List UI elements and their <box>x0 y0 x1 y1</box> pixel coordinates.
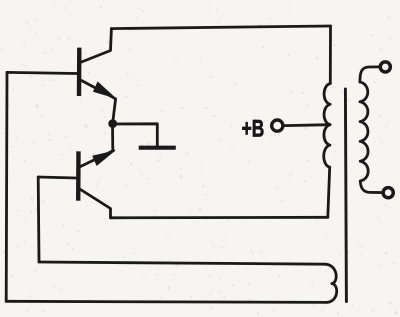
transistor Q2 base lead wire <box>38 177 76 178</box>
terminal +B circle <box>272 120 283 131</box>
wire node to ground <box>113 124 158 147</box>
wire feedback return <box>39 262 325 264</box>
transistor Q1 emitter arrow <box>93 81 117 98</box>
transistor Q2 base bar <box>76 151 81 200</box>
terminal secondary bottom circle <box>383 188 393 198</box>
node A junction dot <box>108 119 117 128</box>
transistor Q2 collector lead <box>81 190 111 218</box>
transistor Q1 base bar <box>77 48 82 96</box>
wire secondary bottom lead <box>360 181 383 193</box>
transistor Q2 emitter arrow <box>92 150 116 166</box>
wire primary top lead <box>329 26 332 84</box>
svg-text:+B: +B <box>242 116 265 142</box>
wire feedback inner vertical <box>37 177 41 262</box>
transistor Q1 emitter lead <box>82 81 116 123</box>
transformer secondary winding L2 <box>360 82 368 181</box>
transformer primary winding L1 <box>324 84 331 168</box>
transistor Q2 emitter lead <box>81 151 114 167</box>
wire +B tap <box>285 123 331 127</box>
wire Q2 collector to transformer primary bottom <box>111 216 328 219</box>
terminal secondary top circle <box>380 62 390 72</box>
wire primary bottom lead <box>328 167 330 217</box>
transformer core <box>345 89 346 302</box>
wire feedback bottom <box>6 301 326 302</box>
ground <box>139 146 176 150</box>
wire secondary top lead <box>360 67 380 82</box>
feedback winding L3 end loop <box>325 264 337 302</box>
transistor Q1 base lead wire <box>7 72 77 73</box>
wire node to Q2 emitter <box>111 124 114 151</box>
wire feedback left vertical <box>5 72 9 301</box>
transistor Q1 collector lead <box>82 29 112 62</box>
wire top rail <box>111 26 330 29</box>
